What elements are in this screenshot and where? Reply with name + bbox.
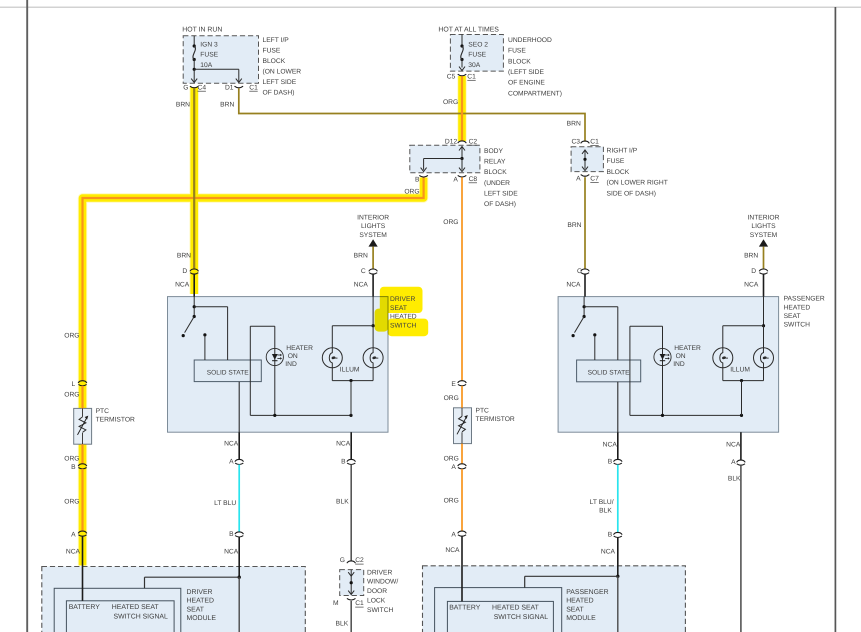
svg-text:SYSTEM: SYSTEM	[750, 232, 778, 239]
svg-text:L: L	[71, 381, 75, 388]
svg-text:ORG: ORG	[443, 99, 458, 106]
svg-text:SEAT: SEAT	[784, 313, 801, 320]
svg-text:D: D	[182, 268, 187, 275]
svg-text:BRN: BRN	[567, 121, 581, 128]
svg-text:BLK: BLK	[728, 475, 741, 482]
svg-text:BLOCK: BLOCK	[263, 58, 286, 65]
svg-text:IND: IND	[673, 361, 685, 368]
svg-text:BODY: BODY	[484, 148, 503, 155]
svg-text:NCA: NCA	[175, 281, 190, 288]
svg-text:ORG: ORG	[444, 455, 459, 462]
svg-text:RIGHT I/P: RIGHT I/P	[607, 148, 638, 155]
svg-text:A: A	[451, 464, 456, 471]
svg-text:(ON LOWER RIGHT: (ON LOWER RIGHT	[607, 180, 668, 187]
svg-text:ORG: ORG	[64, 333, 79, 340]
svg-text:PTC: PTC	[96, 408, 110, 415]
svg-text:TERMISTOR: TERMISTOR	[476, 416, 515, 423]
svg-text:NCA: NCA	[224, 549, 239, 556]
svg-text:SWITCH: SWITCH	[390, 322, 417, 329]
svg-text:C2: C2	[469, 138, 478, 145]
svg-text:SEAT: SEAT	[390, 305, 407, 312]
svg-text:A: A	[71, 531, 76, 538]
svg-text:ILLUM: ILLUM	[730, 367, 750, 374]
svg-text:PTC: PTC	[476, 408, 490, 415]
svg-text:E: E	[451, 381, 456, 388]
svg-text:NCA: NCA	[726, 442, 741, 449]
svg-text:LEFT SIDE: LEFT SIDE	[263, 79, 297, 86]
svg-text:ORG: ORG	[404, 189, 419, 196]
svg-text:C2: C2	[355, 557, 364, 564]
svg-text:HEATED: HEATED	[566, 598, 593, 605]
svg-text:NCA: NCA	[603, 442, 618, 449]
svg-text:DRIVER: DRIVER	[390, 296, 415, 303]
svg-text:30A: 30A	[468, 62, 480, 69]
svg-text:SEO 2: SEO 2	[468, 41, 488, 48]
svg-text:BRN: BRN	[220, 102, 234, 109]
svg-text:C: C	[361, 268, 366, 275]
svg-text:INTERIOR: INTERIOR	[748, 215, 780, 222]
svg-text:NCA: NCA	[445, 547, 460, 554]
svg-text:C1: C1	[590, 139, 599, 146]
svg-text:PASSENGER: PASSENGER	[566, 589, 608, 596]
svg-text:C7: C7	[590, 176, 599, 183]
svg-text:LEFT SIDE: LEFT SIDE	[484, 190, 518, 197]
svg-text:C: C	[577, 268, 582, 275]
svg-text:LT BLU: LT BLU	[214, 500, 236, 507]
svg-text:BLK: BLK	[336, 621, 349, 628]
svg-text:SOLID STATE: SOLID STATE	[588, 369, 630, 376]
svg-text:C1: C1	[355, 600, 364, 607]
svg-text:HEATER: HEATER	[674, 345, 701, 352]
svg-text:B: B	[229, 531, 234, 538]
svg-text:B: B	[71, 464, 76, 471]
svg-text:RELAY: RELAY	[484, 159, 506, 166]
svg-text:M: M	[333, 600, 339, 607]
svg-text:C1: C1	[467, 73, 476, 80]
svg-text:HEATED SEAT: HEATED SEAT	[492, 605, 540, 612]
svg-text:SYSTEM: SYSTEM	[359, 232, 387, 239]
svg-text:FUSE: FUSE	[607, 158, 625, 165]
svg-text:HOT IN RUN: HOT IN RUN	[182, 27, 222, 34]
svg-text:DRIVER: DRIVER	[367, 569, 392, 576]
svg-text:SWITCH: SWITCH	[784, 322, 811, 329]
svg-text:(ON LOWER: (ON LOWER	[263, 69, 302, 76]
svg-text:LIGHTS: LIGHTS	[751, 223, 776, 230]
svg-text:ORG: ORG	[64, 455, 79, 462]
svg-text:B: B	[608, 532, 613, 539]
svg-text:BRN: BRN	[567, 222, 581, 229]
svg-text:A: A	[576, 176, 581, 183]
svg-text:BLOCK: BLOCK	[484, 169, 507, 176]
svg-text:OF DASH): OF DASH)	[263, 90, 295, 97]
svg-text:LIGHTS: LIGHTS	[361, 223, 386, 230]
svg-text:B: B	[608, 459, 613, 466]
svg-text:HEATED: HEATED	[187, 598, 214, 605]
svg-text:D1: D1	[225, 84, 234, 91]
svg-text:ORG: ORG	[444, 395, 459, 402]
svg-text:SWITCH SIGNAL: SWITCH SIGNAL	[114, 613, 169, 620]
svg-text:(UNDER: (UNDER	[484, 180, 510, 187]
svg-text:ORG: ORG	[443, 219, 458, 226]
svg-text:ORG: ORG	[444, 497, 459, 504]
svg-text:NCA: NCA	[336, 440, 351, 447]
svg-text:ORG: ORG	[64, 392, 79, 399]
svg-text:(LEFT SIDE: (LEFT SIDE	[508, 69, 544, 76]
svg-text:LEFT I/P: LEFT I/P	[263, 37, 290, 44]
svg-text:ORG: ORG	[64, 498, 79, 505]
svg-text:B: B	[415, 176, 420, 183]
svg-text:PASSENGER: PASSENGER	[784, 296, 825, 303]
svg-text:D12: D12	[445, 138, 458, 145]
svg-text:A: A	[229, 459, 234, 466]
svg-text:D: D	[751, 268, 756, 275]
svg-text:BRN: BRN	[354, 253, 368, 260]
svg-text:OF DASH): OF DASH)	[484, 201, 516, 208]
svg-text:ILLUM: ILLUM	[340, 367, 360, 374]
svg-text:HEATED: HEATED	[784, 304, 811, 311]
svg-text:A: A	[451, 531, 456, 538]
svg-text:IND: IND	[285, 361, 297, 368]
svg-text:G: G	[183, 84, 188, 91]
svg-text:HEATER: HEATER	[286, 345, 313, 352]
svg-text:BRN: BRN	[177, 253, 191, 260]
svg-text:SIDE OF DASH): SIDE OF DASH)	[607, 190, 656, 197]
svg-text:DRIVER: DRIVER	[187, 589, 213, 596]
svg-text:NCA: NCA	[66, 549, 81, 556]
svg-text:LOCK: LOCK	[367, 598, 386, 605]
svg-text:BLOCK: BLOCK	[508, 58, 531, 65]
svg-text:WINDOW/: WINDOW/	[367, 579, 398, 586]
svg-text:SOLID STATE: SOLID STATE	[207, 369, 249, 376]
svg-text:FUSE: FUSE	[508, 48, 526, 55]
svg-text:SWITCH: SWITCH	[367, 607, 394, 614]
svg-text:INTERIOR: INTERIOR	[357, 215, 389, 222]
svg-text:SEAT: SEAT	[187, 606, 205, 613]
svg-text:ON: ON	[676, 353, 686, 360]
svg-text:NCA: NCA	[566, 281, 581, 288]
svg-text:SWITCH SIGNAL: SWITCH SIGNAL	[494, 614, 549, 621]
svg-text:BRN: BRN	[176, 102, 190, 109]
svg-text:C1: C1	[249, 84, 258, 91]
svg-text:IGN 3: IGN 3	[200, 42, 218, 49]
svg-text:C8: C8	[469, 176, 478, 183]
svg-text:SEAT: SEAT	[566, 606, 584, 613]
svg-text:MODULE: MODULE	[566, 615, 596, 622]
svg-text:HEATED SEAT: HEATED SEAT	[112, 604, 160, 611]
svg-text:C4: C4	[198, 84, 207, 91]
svg-text:FUSE: FUSE	[468, 52, 486, 59]
svg-text:BLOCK: BLOCK	[607, 169, 630, 176]
svg-text:NCA: NCA	[354, 281, 369, 288]
svg-text:COMPARTMENT): COMPARTMENT)	[508, 90, 562, 97]
svg-text:NCA: NCA	[601, 549, 616, 556]
svg-text:HOT AT ALL TIMES: HOT AT ALL TIMES	[438, 27, 499, 34]
svg-text:FUSE: FUSE	[263, 48, 281, 55]
svg-text:A: A	[731, 459, 736, 466]
svg-text:10A: 10A	[200, 62, 212, 69]
svg-text:A: A	[453, 176, 458, 183]
svg-text:NCA: NCA	[744, 281, 759, 288]
svg-text:BATTERY: BATTERY	[69, 604, 101, 611]
svg-text:ON: ON	[288, 353, 298, 360]
svg-text:OF ENGINE: OF ENGINE	[508, 80, 545, 87]
svg-text:C5: C5	[447, 73, 456, 80]
svg-text:TERMISTOR: TERMISTOR	[96, 417, 135, 424]
svg-text:FUSE: FUSE	[200, 52, 218, 59]
svg-text:NCA: NCA	[224, 440, 239, 447]
svg-text:DOOR: DOOR	[367, 588, 387, 595]
svg-text:BLK: BLK	[599, 507, 612, 514]
svg-text:BATTERY: BATTERY	[449, 605, 481, 612]
svg-text:B: B	[341, 459, 346, 466]
svg-text:BLK: BLK	[336, 498, 349, 505]
svg-text:HEATED: HEATED	[390, 314, 417, 321]
svg-text:UNDERHOOD: UNDERHOOD	[508, 37, 552, 44]
svg-text:C3: C3	[571, 139, 580, 146]
svg-text:G: G	[340, 557, 345, 564]
svg-text:LT BLU/: LT BLU/	[590, 499, 614, 506]
svg-text:MODULE: MODULE	[187, 615, 217, 622]
svg-text:BRN: BRN	[744, 253, 758, 260]
